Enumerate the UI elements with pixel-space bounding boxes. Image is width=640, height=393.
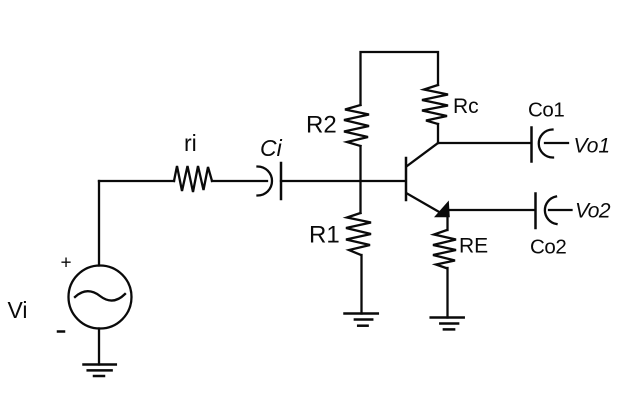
svg-text:Co2: Co2: [530, 236, 566, 259]
wire R1 to ground: [360, 255, 362, 314]
transistor Q1: [406, 143, 450, 217]
wire emitter to Co2: [449, 209, 535, 211]
svg-text:+: +: [61, 253, 72, 274]
plus sign: [61, 253, 72, 274]
svg-text:Co1: Co1: [528, 99, 564, 122]
wire emitter down to RE: [446, 217, 448, 230]
minus sign: [58, 330, 64, 333]
capacitor Co2: [536, 194, 572, 229]
svg-text:Vi: Vi: [8, 297, 28, 323]
voltage source Vi: [69, 266, 132, 329]
capacitor Ci: [258, 163, 282, 199]
wire Rc to collector node: [437, 124, 439, 143]
svg-text:Rc: Rc: [453, 95, 479, 118]
wire collector node to Co1: [438, 142, 531, 144]
ground under R1: [345, 314, 378, 326]
resistor Rc: [422, 85, 448, 124]
svg-text:Vo1: Vo1: [574, 135, 611, 158]
svg-text:Ci: Ci: [260, 135, 283, 161]
wire top rail: [361, 52, 439, 105]
wire rail left segment: [99, 180, 174, 182]
wire RE to ground: [446, 268, 448, 318]
resistor R1: [346, 213, 371, 255]
wire Vi bottom to ground: [98, 329, 100, 365]
svg-text:R1: R1: [309, 222, 340, 249]
wire Ci to transistor base: [281, 180, 405, 182]
wire Vi top to rail: [98, 181, 100, 266]
svg-text:RE: RE: [459, 235, 488, 258]
svg-text:Vo2: Vo2: [575, 200, 611, 223]
capacitor Co1: [532, 128, 569, 162]
ground under Vi: [84, 365, 116, 377]
wire ri to Ci: [212, 180, 267, 182]
wire R2 to base node: [359, 146, 361, 213]
resistor R2: [344, 105, 369, 146]
resistor ri: [174, 166, 212, 192]
svg-text:R2: R2: [306, 112, 337, 139]
svg-text:ri: ri: [184, 130, 197, 156]
resistor RE: [433, 230, 456, 268]
ground under RE: [431, 318, 464, 330]
